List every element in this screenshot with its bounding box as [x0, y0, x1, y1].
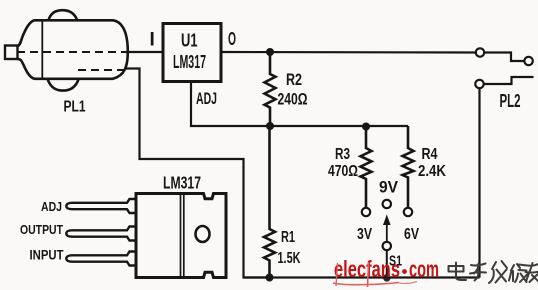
svg-text:LM317: LM317	[173, 51, 206, 72]
svg-text:com: com	[409, 256, 439, 282]
svg-text:1.5K: 1.5K	[278, 250, 301, 267]
svg-text:ADJ: ADJ	[41, 199, 62, 214]
node junction ADJ/R2/R1	[266, 122, 274, 130]
wire U1 output to PL2	[221, 51, 476, 54]
plug PL1 top contact bump	[49, 10, 78, 20]
svg-text:R1: R1	[281, 229, 295, 246]
svg-text:elecfans: elecfans	[334, 256, 400, 282]
node junction R1/bus	[266, 274, 274, 282]
svg-text:2.4K: 2.4K	[418, 163, 446, 180]
switch S1 terminal 3V	[362, 208, 370, 216]
svg-text:INPUT: INPUT	[30, 248, 65, 263]
svg-text:PL2: PL2	[500, 91, 521, 111]
connector PL2 top contact	[476, 48, 484, 56]
wire PL1 to U1 input	[125, 51, 163, 53]
svg-text:240Ω: 240Ω	[278, 90, 308, 109]
switch S1 terminal 9V	[383, 200, 391, 208]
watermark chinese characters	[449, 261, 538, 283]
plug PL1 side-contact dashed line	[78, 69, 126, 71]
plug PL1 bottom contact bump	[48, 79, 79, 91]
wire wiper to bus	[386, 250, 388, 277]
resistor R1	[264, 126, 275, 278]
svg-text:6V: 6V	[404, 226, 419, 243]
svg-text:9V: 9V	[379, 178, 399, 197]
resistor R3	[361, 126, 372, 208]
svg-text:R2: R2	[286, 70, 302, 89]
svg-text:OUTPUT: OUTPUT	[20, 222, 63, 237]
wire PL1 side contact to ground bus	[126, 69, 270, 278]
transistor package LM317 tab divider lines	[180, 194, 182, 277]
svg-text:O: O	[228, 29, 236, 49]
transistor package LM317 body and tab outline	[136, 194, 226, 278]
node junction at R3 top	[362, 123, 370, 131]
wire PL2 return to bus	[478, 88, 480, 277]
resistor R2	[265, 52, 276, 126]
plug PL1 center dashed line	[17, 51, 125, 53]
plug PL1 tip	[5, 46, 18, 60]
watermark elecfans.com	[333, 256, 439, 287]
wire PL2 bottom pin step	[484, 77, 534, 84]
switch S1 wiper arrow	[386, 223, 388, 242]
node junction at R2 top	[266, 48, 274, 56]
plug PL1 inner vertical line	[41, 20, 43, 79]
lead ADJ of package	[66, 199, 136, 213]
svg-text:I: I	[150, 30, 155, 51]
lead INPUT of package	[66, 252, 136, 266]
connector PL2 top mating pin	[524, 57, 532, 65]
svg-text:U1: U1	[181, 31, 198, 51]
plug PL1 body outline	[18, 20, 128, 79]
op-amp U1 regulator box	[163, 24, 221, 82]
svg-text:470Ω: 470Ω	[328, 163, 358, 180]
svg-text:LM317: LM317	[163, 173, 201, 193]
svg-text:R3: R3	[335, 146, 350, 163]
lead OUTPUT of package	[66, 227, 136, 241]
svg-text:3V: 3V	[357, 226, 372, 243]
node junction wiper/bus	[383, 274, 391, 282]
switch S1 wiper pole circle	[383, 242, 391, 250]
svg-text:PL1: PL1	[64, 99, 86, 116]
wire PL2 top pin step	[484, 53, 524, 62]
wire U1 ADJ pin down and right	[191, 81, 270, 126]
switch S1 terminal 6V	[404, 208, 412, 216]
resistor R4	[403, 126, 414, 208]
connector PL2 bottom contact	[475, 80, 483, 88]
wire bottom bus	[244, 276, 480, 278]
svg-text:R4: R4	[422, 146, 438, 163]
wire divider row	[270, 125, 408, 127]
transistor package LM317 mounting hole	[196, 226, 210, 242]
svg-text:ADJ: ADJ	[196, 90, 217, 108]
